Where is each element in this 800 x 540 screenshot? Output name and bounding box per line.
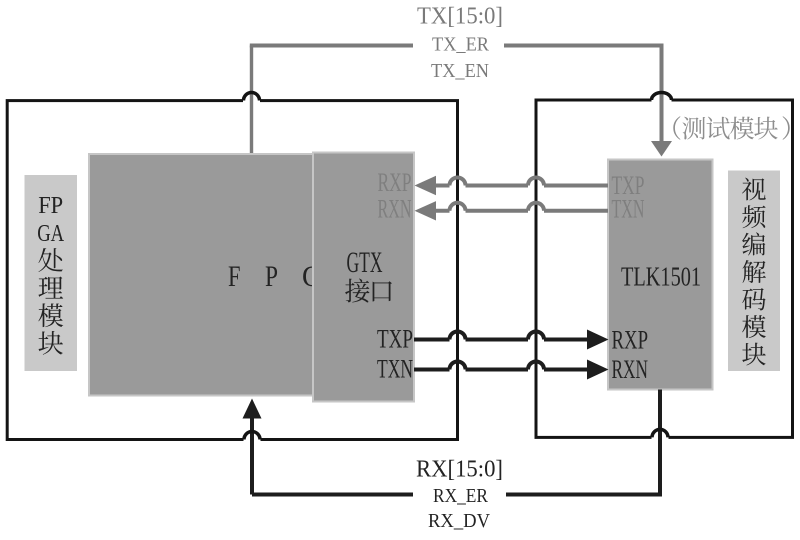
label 解 <box>743 260 766 283</box>
wire TX horizontal right segment and down to TLK <box>504 46 662 143</box>
wire RXP TLK to GTX <box>436 184 608 188</box>
GTX interface box <box>313 153 414 402</box>
svg-text:GA: GA <box>37 221 65 247</box>
label (test module) <box>673 116 680 139</box>
hop of TXN wire over right box edge <box>528 362 544 370</box>
wire TX left vertical into FPGA box <box>250 46 253 154</box>
label 模 <box>742 315 766 338</box>
svg-text:GTX: GTX <box>347 246 383 279</box>
hop of RXP wire over right box edge <box>528 178 544 186</box>
label 模 <box>38 303 63 327</box>
svg-text:F: F <box>228 260 241 293</box>
svg-text:TXN: TXN <box>612 195 645 224</box>
arrowhead TXP into TLK <box>587 330 609 350</box>
svg-text:TLK1501: TLK1501 <box>621 262 701 292</box>
label 理 <box>38 277 63 299</box>
arrowhead RXP into GTX <box>415 176 437 195</box>
svg-text:TXP: TXP <box>377 325 413 354</box>
arrowhead TXN into TLK <box>587 360 609 380</box>
wire TXN GTX to TLK <box>414 368 587 372</box>
hop of TXN wire over left box edge <box>450 362 466 370</box>
FPGA chip box <box>89 154 313 396</box>
arrow into TLK1501 top <box>651 141 672 157</box>
hop of TXP wire over left box edge <box>450 332 466 340</box>
hop of TXP wire over right box edge <box>528 332 544 340</box>
wire TXP GTX to TLK <box>414 338 587 342</box>
bridge of right box bottom edge over RX wire <box>652 429 668 437</box>
gap in right box bottom edge for RX wire <box>652 434 669 441</box>
svg-text:TX_ER: TX_ER <box>432 34 490 56</box>
video codec module outer box <box>536 100 793 437</box>
hop of RXP wire over left box edge <box>450 178 466 186</box>
wire RX horizontal right segment up to TLK bottom <box>506 390 660 495</box>
gap in left box top edge for TX wire <box>243 97 260 104</box>
gap in left box bottom edge for RX wire <box>244 436 261 443</box>
svg-text:RXP: RXP <box>612 326 649 355</box>
svg-text:RXP: RXP <box>378 168 412 197</box>
svg-text:TX[15:0]: TX[15:0] <box>417 4 503 30</box>
svg-text:FP: FP <box>38 193 63 219</box>
bridge of left box bottom edge over RX wire <box>244 432 260 440</box>
svg-text:TXN: TXN <box>377 355 413 384</box>
label 接 (interface) <box>345 278 369 302</box>
hop of RXN wire over right box edge <box>528 203 544 211</box>
label 码 <box>742 288 765 310</box>
label 处 <box>38 248 62 272</box>
label 块 <box>39 331 63 355</box>
svg-text:P: P <box>265 260 278 293</box>
svg-text:RX[15:0]: RX[15:0] <box>416 456 503 483</box>
label 视 <box>742 178 766 201</box>
svg-text:RXN: RXN <box>612 355 649 384</box>
gap in right box top edge for TX wire <box>652 97 672 104</box>
TLK1501 box <box>608 160 713 390</box>
wire RX left vertical <box>252 416 413 495</box>
svg-text:RX_DV: RX_DV <box>428 510 491 532</box>
arrow up into FPGA box bottom <box>243 399 262 419</box>
wire RXN TLK to GTX <box>436 209 608 213</box>
bridge of right box top edge over TX wire <box>652 93 672 100</box>
FPGA processing module outer box <box>7 101 457 440</box>
video codec module label box <box>728 171 780 372</box>
label 块 <box>742 343 766 366</box>
bridge of left box top edge over TX wire <box>244 93 260 101</box>
svg-text:RX_ER: RX_ER <box>433 485 489 507</box>
arrowhead RXN into GTX <box>415 201 437 220</box>
hop of RXN wire over left box edge <box>450 203 466 211</box>
svg-text:TX_EN: TX_EN <box>431 60 489 82</box>
svg-text:RXN: RXN <box>378 195 412 224</box>
label 口 (interface) <box>373 281 392 301</box>
label 编 <box>742 232 765 255</box>
wire TX horizontal left segment <box>250 44 413 48</box>
FPGA module label box <box>25 175 78 371</box>
label 频 <box>742 205 765 228</box>
